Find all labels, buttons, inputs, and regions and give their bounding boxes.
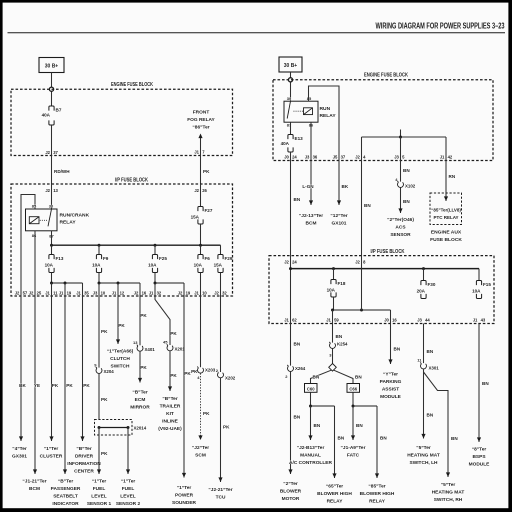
connector X264 pin 2 (285, 365, 306, 379)
svg-text:J2: J2 (45, 188, 50, 193)
node label BSPS MODULE (469, 447, 491, 468)
svg-text:I/P FUSE BLOCK: I/P FUSE BLOCK (371, 249, 405, 255)
splice bus under F13 (50, 273, 83, 285)
fuse F15 10A (472, 281, 491, 299)
svg-text:24: 24 (292, 260, 297, 265)
svg-text:“Y”Ter: “Y”Ter (383, 372, 398, 378)
wire fuse F27 to bus (200, 224, 202, 245)
wire bus to F9 (98, 245, 100, 254)
feed stub to distribution bar (400, 130, 402, 138)
fuse F9 10A (92, 255, 109, 273)
arrow clutch switch (116, 339, 120, 344)
svg-text:PK: PK (52, 383, 59, 388)
svg-text:SOUNDER: SOUNDER (172, 500, 197, 506)
svg-text:X204: X204 (104, 369, 115, 374)
svg-text:86: 86 (32, 233, 37, 238)
svg-text:INDICATOR: INDICATOR (52, 501, 79, 507)
wire relay pin 85 loop to pin J5|37 (309, 86, 340, 161)
svg-text:“1”Ter: “1”Ter (92, 479, 107, 485)
node label TCU J2-21 (208, 487, 232, 501)
arrow heating mat switch RH (446, 472, 450, 477)
svg-text:J2: J2 (194, 188, 199, 193)
svg-text:PK: PK (203, 169, 210, 174)
arrow ACS sensor (398, 208, 402, 213)
svg-text:11: 11 (53, 291, 58, 296)
svg-text:10A: 10A (148, 263, 157, 268)
svg-text:X202: X202 (225, 376, 236, 381)
svg-text:45: 45 (163, 340, 168, 345)
node label HEATING MAT SWITCH LH (407, 445, 440, 466)
connector X401 pin 13 (133, 340, 155, 352)
node bus F30 (422, 267, 425, 270)
node label ACS SENSOR (387, 217, 414, 238)
svg-text:40A: 40A (281, 141, 290, 146)
node label SCM J2 (192, 445, 209, 459)
wire to connector X202 (220, 296, 222, 372)
svg-text:SEATBELT: SEATBELT (53, 494, 78, 500)
svg-text:“J2”Ter: “J2”Ter (192, 445, 209, 451)
svg-text:CENTER: CENTER (74, 469, 94, 475)
svg-text:X2014: X2014 (134, 426, 147, 431)
arrow BSPS module (477, 437, 481, 442)
wire BN to blower high relay 65 (335, 406, 345, 478)
wire X102 to ACS sensor (401, 188, 411, 213)
svg-text:BN: BN (427, 349, 434, 354)
svg-text:59: 59 (334, 318, 339, 323)
arrow driver information center (80, 436, 84, 441)
pin J2|19 (178, 291, 191, 296)
svg-text:BN: BN (313, 375, 320, 380)
wire to pin J2|16 (139, 283, 141, 296)
wire PK to driver information center (83, 296, 91, 441)
svg-text:SWITCH: SWITCH (111, 364, 130, 370)
svg-text:TRAILER: TRAILER (160, 404, 181, 410)
svg-text:X102: X102 (405, 184, 416, 189)
pin J2|4 (355, 155, 366, 160)
fuse F18 10A (327, 280, 346, 298)
arrow trailer kit (168, 386, 172, 391)
svg-text:87: 87 (287, 123, 292, 128)
pin J2|8 (355, 260, 366, 265)
svg-text:PK: PK (101, 329, 108, 334)
arrow fuel level sensor 2 (126, 469, 130, 474)
svg-text:L-GN: L-GN (302, 184, 314, 189)
wire BN to parking assist module (391, 324, 401, 365)
engine fuse block (left) (11, 82, 233, 156)
wire BK to GX101 (339, 161, 349, 206)
svg-text:F25: F25 (159, 256, 167, 261)
wire PK to fuel level sensor 1 (99, 428, 108, 475)
svg-text:PK: PK (170, 331, 177, 336)
wire relay pin 86 to pin J2|25 (34, 231, 36, 296)
svg-text:INLINE: INLINE (162, 419, 179, 425)
wire battery to engine fuse block (left) (51, 73, 53, 107)
svg-text:X264: X264 (295, 366, 306, 371)
wire PK to cluster (52, 296, 59, 441)
svg-text:J1: J1 (76, 291, 81, 296)
pin J3|36 (305, 155, 318, 160)
wire to pin J3|10 (98, 283, 100, 296)
svg-text:J2: J2 (355, 155, 360, 160)
svg-text:85: 85 (307, 96, 312, 101)
svg-text:J2: J2 (355, 260, 360, 265)
svg-text:J2: J2 (45, 150, 50, 155)
node label PARKING ASSIST MODULE (380, 372, 402, 401)
svg-text:37: 37 (341, 155, 346, 160)
svg-text:24: 24 (292, 155, 297, 160)
wire diamond to left C60 (311, 370, 332, 383)
svg-text:BN: BN (314, 423, 321, 428)
fuse F29 15A (214, 255, 233, 273)
connector X203 pin 4 (197, 367, 216, 381)
wire PK to connector X203 (191, 296, 200, 374)
wire label RD/WH (54, 169, 70, 174)
svg-text:BCM: BCM (306, 221, 317, 227)
svg-text:BN: BN (338, 436, 345, 441)
wire bar to pin J2|4 (361, 137, 363, 161)
splice bus under F25 (154, 273, 185, 285)
wire X401 to ECM mirror (140, 351, 147, 382)
svg-text:“5”Ter: “5”Ter (416, 445, 431, 451)
arrow GX301 (19, 436, 23, 441)
svg-text:32: 32 (222, 291, 227, 296)
svg-text:A/C CONTROLLER: A/C CONTROLLER (289, 460, 332, 466)
node bus F6 (199, 244, 202, 247)
pin J2|57 (15, 291, 28, 296)
node bus F9 (98, 244, 101, 247)
pin J2|32 (214, 291, 227, 296)
svg-text:16: 16 (142, 291, 147, 296)
arrow TCU (218, 477, 222, 482)
wire PK to TCU (221, 378, 231, 482)
wire X201 to trailer kit (170, 351, 177, 391)
svg-text:RELAY: RELAY (327, 499, 344, 505)
svg-text:PK: PK (83, 383, 90, 388)
connector C66 (347, 384, 360, 393)
arrow manual A/C controller (308, 435, 312, 440)
svg-text:J1: J1 (473, 318, 478, 323)
wire BN to connector X301 (424, 324, 434, 364)
wire relay pin 87 to bus (51, 231, 53, 245)
svg-text:I/P FUSE BLOCK: I/P FUSE BLOCK (115, 178, 148, 184)
svg-text:GX101: GX101 (332, 221, 347, 227)
svg-text:HEATING MAT: HEATING MAT (407, 453, 440, 459)
svg-text:10: 10 (101, 291, 106, 296)
wire bus to F13 (51, 245, 53, 254)
svg-text:85: 85 (32, 204, 37, 209)
svg-text:PK: PK (203, 411, 210, 416)
bus in I/P block (right) (291, 268, 480, 270)
front fog relay feed text (187, 110, 215, 131)
svg-text:“B”Ter: “B”Ter (58, 479, 74, 485)
arrow heating mat switch LH (421, 434, 425, 439)
wire RN to PTC relay (446, 161, 456, 202)
node label HEATING MAT SWITCH RH (432, 482, 465, 503)
node bus F25 (154, 244, 157, 247)
svg-text:44: 44 (425, 318, 430, 323)
wire to pin J1|35 (82, 283, 84, 296)
wire to pin J1|11 (51, 283, 53, 296)
svg-text:32: 32 (157, 291, 162, 296)
svg-text:BN: BN (394, 347, 401, 352)
svg-text:ASSIST: ASSIST (382, 387, 399, 393)
arrow to front fog relay (198, 134, 202, 156)
svg-text:HEATING MAT: HEATING MAT (432, 490, 465, 496)
pin J2|16 (134, 291, 147, 296)
wire branch to heating mat switch RH (424, 372, 459, 477)
node label CLUSTER (40, 446, 63, 460)
node distribution bar (399, 136, 402, 139)
svg-text:30 B+: 30 B+ (284, 63, 298, 69)
svg-text:“J1-A9”Ter: “J1-A9”Ter (341, 445, 366, 451)
svg-text:62: 62 (292, 318, 297, 323)
pin J2|26 (194, 188, 207, 193)
svg-text:WIRING DIAGRAM FOR POWER SUPPL: WIRING DIAGRAM FOR POWER SUPPLIES 3–23 (376, 22, 505, 31)
connector X102 pin 4 (395, 177, 416, 189)
node label FUEL LEVEL SENSOR 2 (116, 479, 141, 508)
svg-text:RD/WH: RD/WH (54, 169, 70, 174)
wire through I/P block to pin J1|62 (290, 256, 292, 324)
svg-text:X401: X401 (145, 347, 156, 352)
svg-text:BN: BN (364, 203, 371, 208)
arrow BCM (33, 469, 37, 474)
svg-text:F18: F18 (338, 281, 346, 286)
pin J1|59 (326, 318, 339, 323)
wire splice branch to fuel level sensor 2 (127, 428, 129, 475)
svg-text:J1: J1 (194, 150, 199, 155)
svg-text:“86”Ter: “86”Ter (192, 125, 209, 131)
arrow PTC relay (444, 196, 448, 201)
svg-text:RELAY: RELAY (60, 220, 77, 226)
svg-text:PK: PK (101, 451, 108, 456)
arrow power sounder (182, 473, 186, 478)
wire BK to GX301 (19, 296, 26, 441)
wire to fuse F27 (200, 184, 202, 207)
wire bus to F25 (154, 245, 156, 254)
svg-text:BN: BN (294, 197, 301, 202)
fuse F25 10A (148, 255, 167, 273)
pin J3|10 (93, 291, 106, 296)
pin J1|32 (149, 291, 162, 296)
pin J1|43 (473, 318, 486, 323)
page border top bar (0, 0, 512, 3)
arrow ECM mirror (138, 378, 142, 383)
wire YE to BCM (34, 296, 40, 474)
svg-text:BK: BK (342, 184, 349, 189)
svg-text:LEVEL: LEVEL (120, 494, 136, 500)
svg-text:F6: F6 (205, 256, 211, 261)
svg-text:10A: 10A (194, 263, 203, 268)
svg-text:“2”Ter(O46): “2”Ter(O46) (387, 217, 414, 223)
svg-text:10A: 10A (327, 288, 336, 293)
svg-text:10A: 10A (45, 263, 54, 268)
wire BN to blower high relay 85 (377, 406, 387, 478)
battery feed box 30 B+ (right) (279, 57, 302, 72)
header rule (8, 32, 506, 34)
svg-text:F27: F27 (205, 208, 213, 213)
svg-text:PK: PK (140, 313, 147, 318)
svg-text:X301: X301 (429, 366, 440, 371)
wire fuse E13 to pin J0|24 (290, 152, 292, 161)
node label BLOWER HIGH RELAY 65 (317, 484, 352, 505)
arrow cluster (49, 436, 53, 441)
svg-text:BN: BN (336, 334, 343, 339)
node label CLUTCH SWITCH (107, 349, 134, 370)
wire engine block to I/P block PK (201, 156, 211, 185)
pin J1|62 (284, 318, 297, 323)
svg-text:J2: J2 (15, 291, 20, 296)
arrow parking assist module (388, 359, 392, 364)
pin J5|37 (333, 155, 346, 160)
node bus F18 (332, 267, 335, 270)
svg-text:FATC: FATC (347, 453, 360, 459)
svg-text:FOG RELAY: FOG RELAY (187, 117, 215, 123)
wire BN to BSPS module (479, 324, 489, 443)
svg-text:PK: PK (170, 373, 177, 378)
fuse B7 40A (42, 106, 62, 125)
node label POWER SOUNDER (172, 485, 197, 506)
svg-text:POWER: POWER (175, 493, 194, 499)
page border left bar (0, 0, 3, 512)
svg-text:BN: BN (294, 342, 301, 347)
pin J2|13 (45, 188, 58, 193)
arrow blower high relay 85 (375, 473, 379, 478)
svg-text:PK: PK (223, 425, 230, 430)
arrow SCM (198, 435, 202, 440)
svg-text:J1: J1 (45, 291, 50, 296)
svg-text:J3: J3 (394, 155, 399, 160)
node label BLOWER MOTOR (280, 481, 302, 502)
wire splice to pin J1|59 (332, 310, 334, 324)
wire L-GN to BCM (302, 161, 314, 206)
wire PK to passenger seatbelt indicator (65, 296, 73, 474)
svg-text:F30: F30 (428, 282, 436, 287)
svg-text:13: 13 (133, 340, 138, 345)
wire diamond to right C66 (334, 370, 363, 383)
svg-text:BLOWER: BLOWER (280, 489, 302, 495)
svg-text:J1: J1 (112, 291, 117, 296)
svg-text:C60: C60 (307, 386, 315, 391)
svg-text:X203: X203 (205, 368, 216, 373)
svg-text:BN: BN (356, 423, 363, 428)
svg-text:“J1-21”Ter: “J1-21”Ter (22, 479, 46, 485)
svg-text:FUEL: FUEL (122, 486, 135, 492)
svg-text:MODULE: MODULE (380, 394, 402, 400)
svg-text:43: 43 (481, 318, 486, 323)
node at engine fuse block border (right) (288, 78, 292, 82)
svg-text:30: 30 (287, 96, 292, 101)
svg-text:37: 37 (53, 150, 58, 155)
svg-text:“12”Ter: “12”Ter (330, 213, 347, 219)
node label ECM MIRROR (130, 390, 150, 411)
fuse F6 10A (194, 255, 211, 273)
wire bar to pin J3|5 (400, 137, 402, 161)
node label BCM J2-13 (299, 213, 323, 227)
connector K254 pin 3 (329, 342, 348, 358)
svg-text:PARKING: PARKING (380, 379, 402, 385)
svg-text:“1”Ter(A66): “1”Ter(A66) (107, 349, 134, 355)
svg-text:ENGINE AUX: ENGINE AUX (431, 230, 462, 236)
node at engine fuse block border (left) (49, 87, 53, 91)
pin J1|10 (194, 291, 207, 296)
splice under C66 (352, 405, 378, 408)
svg-text:“B”Ter: “B”Ter (162, 396, 178, 402)
node label GX301 (12, 446, 27, 460)
svg-text:42: 42 (448, 155, 453, 160)
svg-text:RN: RN (449, 174, 456, 179)
wire bus to F30 (423, 269, 425, 281)
svg-text:35: 35 (84, 291, 89, 296)
pin J1|7 (194, 150, 205, 155)
pin J3|44 (417, 318, 430, 323)
svg-text:RELAY: RELAY (369, 499, 386, 505)
svg-text:SENSOR: SENSOR (390, 232, 411, 238)
svg-text:J1: J1 (194, 291, 199, 296)
svg-text:13: 13 (53, 188, 58, 193)
connector X202 pin 2 (216, 368, 236, 381)
pin J1|42 (440, 155, 453, 160)
pin J1|12 (112, 291, 125, 296)
pin J1|19 (59, 291, 72, 296)
svg-text:BLOWER HIGH: BLOWER HIGH (360, 491, 395, 497)
svg-text:“B”Ter: “B”Ter (132, 390, 148, 396)
engine fuse block (right) (273, 73, 493, 161)
svg-text:FUSE BLOCK: FUSE BLOCK (430, 237, 462, 243)
wire bus end to F15 (478, 269, 480, 281)
svg-text:SCM: SCM (195, 453, 206, 459)
svg-text:LEVEL: LEVEL (91, 494, 107, 500)
svg-text:25: 25 (37, 291, 42, 296)
wire to pin J1|12 (117, 283, 119, 296)
wire BN J2|4 to I/P pin J2|8 (362, 161, 372, 256)
svg-text:J3: J3 (305, 155, 310, 160)
svg-text:16: 16 (392, 318, 397, 323)
svg-text:10A: 10A (92, 263, 101, 268)
svg-text:30: 30 (49, 204, 54, 209)
pin J2|37 (45, 150, 58, 155)
wire X301 to heating mat switch LH (424, 369, 434, 438)
svg-text:RUN: RUN (320, 106, 331, 112)
svg-text:PTC RELAY: PTC RELAY (433, 215, 458, 220)
distribution bar in engine block (362, 136, 447, 138)
svg-text:TCU: TCU (216, 495, 226, 501)
svg-text:J2: J2 (29, 291, 34, 296)
svg-text:57: 57 (23, 291, 28, 296)
svg-text:“8”Ter: “8”Ter (472, 447, 487, 453)
arrow FATC (351, 435, 355, 440)
svg-text:BK: BK (19, 383, 26, 388)
svg-text:36: 36 (313, 155, 318, 160)
wire bus to F6 (200, 245, 202, 254)
svg-text:“1”Ter: “1”Ter (121, 479, 136, 485)
svg-text:YE: YE (34, 383, 40, 388)
node label MANUAL A/C CONTROLLER (289, 445, 332, 466)
pin J0|16 (384, 318, 397, 323)
svg-text:BSPS: BSPS (472, 454, 486, 460)
node label GX101 (330, 213, 347, 227)
svg-text:BN: BN (482, 381, 489, 386)
svg-text:J5: J5 (333, 155, 338, 160)
svg-text:“J2-21”Ter: “J2-21”Ter (208, 487, 232, 493)
svg-text:GX301: GX301 (12, 454, 27, 460)
wire F6 to pin J1|10 (200, 273, 202, 297)
svg-text:20A: 20A (417, 289, 426, 294)
svg-text:40A: 40A (42, 113, 51, 118)
svg-text:“65”Ter: “65”Ter (326, 484, 343, 490)
wire battery to engine fuse block (right) (290, 72, 292, 101)
svg-text:30 B+: 30 B+ (45, 64, 59, 70)
svg-text:MIRROR: MIRROR (130, 405, 150, 411)
